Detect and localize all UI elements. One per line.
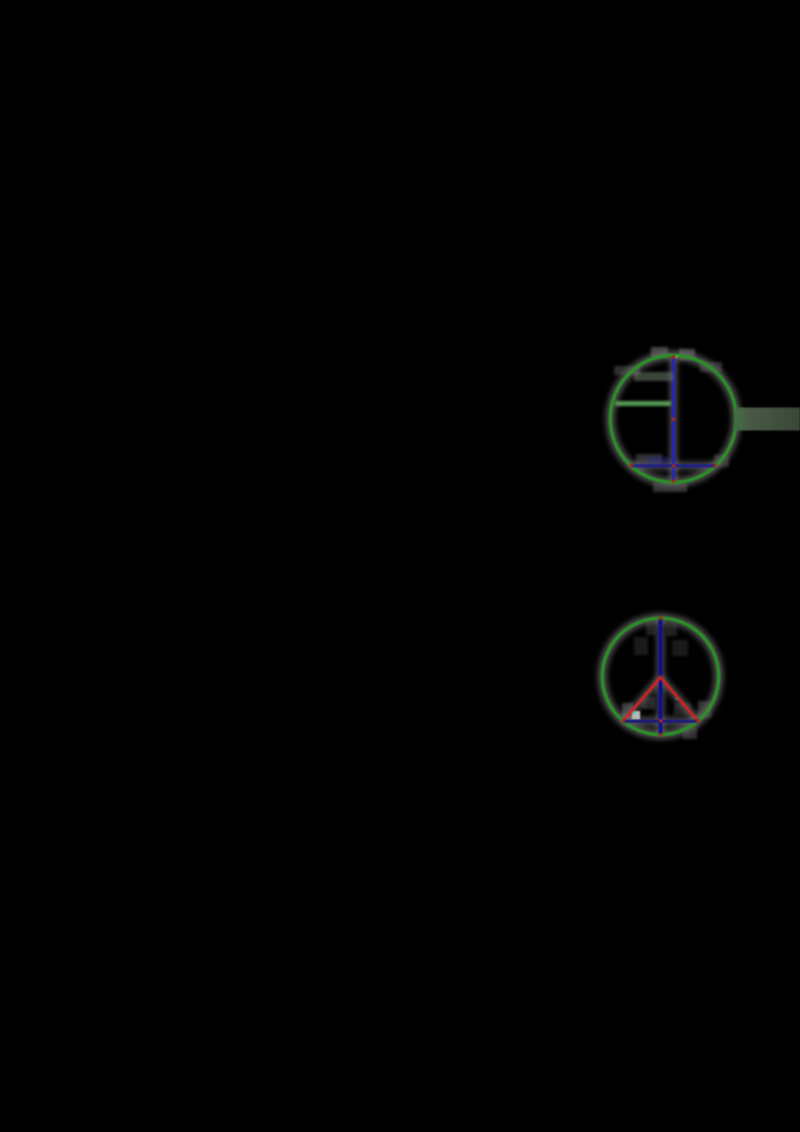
bright green edge of smear band at circle 1 <box>734 408 743 430</box>
circle 2 (green) <box>602 618 718 734</box>
triangle left leg (red) <box>623 678 660 721</box>
artifact smear band right of circle 1 <box>735 408 800 431</box>
point top of circle 2 <box>659 616 663 620</box>
point center of circle 1 <box>671 417 675 421</box>
figure 1 jpeg fuzz halo <box>610 355 736 482</box>
triangle base chord (navy) <box>623 720 698 723</box>
figure 1 jpeg artifact blocks <box>614 347 729 492</box>
bright speck near top point of circle 1 <box>676 356 678 358</box>
point center of circle 2 (triangle apex) <box>659 675 663 679</box>
artifact blue smudge above chord <box>647 457 670 464</box>
faint artifact band inside circle 1 <box>634 372 673 381</box>
teal speck on right leg <box>675 698 678 701</box>
point chord-left on circle 1 <box>629 464 633 468</box>
point chord-right on circle 1 <box>713 464 717 468</box>
point chord-diameter intersection <box>659 719 663 723</box>
point triangle right vertex <box>696 719 700 723</box>
point bottom of circle 1 <box>672 479 676 483</box>
vertical diameter of circle 1 (blue) <box>672 357 675 482</box>
triangle right leg (red) <box>661 678 698 721</box>
figure 2 jpeg artifact blocks <box>622 621 711 739</box>
circle 1 (green) <box>610 355 736 482</box>
green radius segment in circle 1 <box>615 401 671 406</box>
point bottom of circle 2 <box>659 733 663 737</box>
vertical diameter of circle 2 (navy) <box>659 619 663 735</box>
point chord-middle on circle 1 <box>672 464 676 468</box>
point triangle left vertex <box>621 719 625 723</box>
figure 2 jpeg fuzz halo <box>602 618 718 734</box>
point top of circle 1 <box>672 355 676 359</box>
right-angle gray square marker <box>632 711 640 720</box>
teal corner blob on gray square <box>632 711 635 714</box>
horizontal chord of circle 1 (blue) <box>631 464 716 467</box>
